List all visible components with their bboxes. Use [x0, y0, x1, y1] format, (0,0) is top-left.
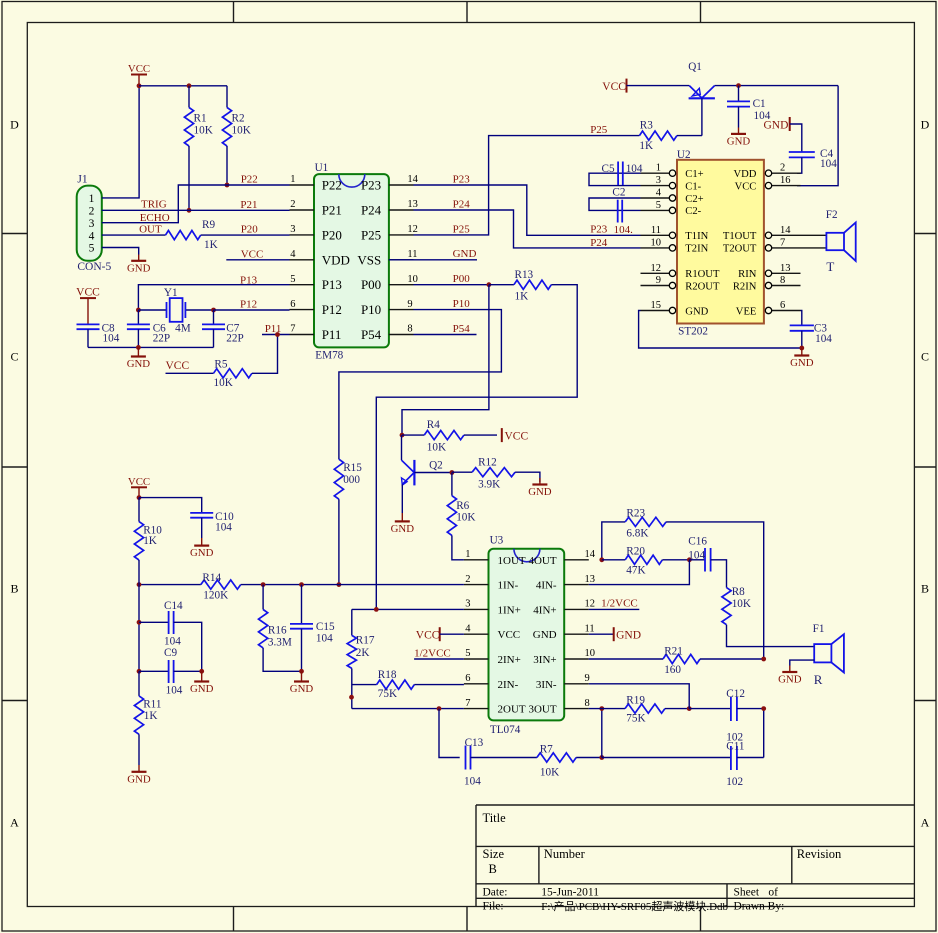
svg-text:VCC: VCC [505, 430, 529, 442]
svg-text:9: 9 [407, 299, 412, 310]
junction P00/R13 [487, 282, 492, 287]
ground C1 [727, 128, 751, 148]
svg-text:GND: GND [727, 135, 751, 147]
svg-text:6: 6 [780, 300, 785, 311]
svg-text:GND: GND [290, 683, 314, 695]
svg-text:GND: GND [685, 306, 708, 317]
svg-text:EM78: EM78 [315, 350, 343, 362]
svg-text:10K: 10K [214, 377, 233, 389]
svg-text:P25: P25 [361, 227, 381, 242]
svg-text:1: 1 [89, 193, 95, 205]
svg-text:22P: 22P [226, 333, 243, 345]
junction P11/R5 [275, 332, 280, 337]
ground R12 [528, 478, 552, 498]
svg-text:U3: U3 [490, 535, 504, 547]
svg-text:Y1: Y1 [164, 287, 178, 299]
resistor R17 2K [347, 609, 375, 708]
junction 1IN-/R10 [137, 582, 142, 587]
svg-text:104: 104 [316, 633, 333, 645]
power port GND (C4) [764, 117, 790, 131]
svg-text:R3: R3 [640, 120, 653, 132]
svg-text:R23: R23 [626, 507, 645, 519]
svg-text:CON-5: CON-5 [77, 261, 111, 273]
svg-text:120K: 120K [203, 589, 228, 601]
wire J1 pin5 to ground [102, 248, 139, 255]
svg-text:T2OUT: T2OUT [723, 244, 757, 255]
capacitor C15 104 [290, 585, 335, 672]
resistor R21 160 [589, 646, 764, 676]
svg-text:10K: 10K [732, 598, 751, 610]
svg-text:B: B [921, 582, 929, 596]
svg-text:75K: 75K [626, 713, 645, 725]
svg-text:C12: C12 [726, 688, 745, 700]
svg-text:GND: GND [528, 486, 552, 498]
wire P23 net to U2 T1IN [414, 173, 641, 236]
svg-text:P13: P13 [240, 274, 258, 286]
op-amp U2 ST202 transceiver [641, 149, 801, 337]
svg-text:R9: R9 [202, 219, 215, 231]
wire VCC to Q1 emitter [627, 85, 690, 87]
svg-text:8: 8 [585, 698, 590, 709]
svg-text:7: 7 [465, 698, 470, 709]
svg-text:C2: C2 [612, 187, 625, 199]
wire P25 net to R3 [414, 124, 640, 236]
resistor R12 3.9K [452, 456, 540, 490]
svg-text:7: 7 [780, 237, 785, 248]
svg-text:D: D [921, 118, 930, 132]
svg-text:13: 13 [780, 263, 791, 274]
svg-text:P54: P54 [361, 327, 382, 342]
svg-text:8: 8 [780, 275, 785, 286]
junction C3/GND [799, 346, 804, 351]
wire R8 to F1 [0, 0, 1, 1]
svg-text:B: B [10, 582, 18, 596]
svg-text:104: 104 [815, 333, 832, 345]
svg-text:4IN+: 4IN+ [533, 604, 556, 616]
resistor R16 3.3M [259, 585, 302, 672]
svg-text:Sheet: Sheet [734, 887, 760, 899]
svg-text:TL074: TL074 [490, 724, 521, 736]
svg-text:5: 5 [89, 243, 95, 255]
svg-text:104.: 104. [614, 224, 634, 236]
svg-text:ECHO: ECHO [140, 212, 170, 224]
svg-text:P22: P22 [322, 178, 342, 193]
svg-text:GND: GND [190, 683, 214, 695]
svg-text:VCC: VCC [128, 63, 150, 75]
svg-text:10: 10 [585, 648, 596, 659]
svg-text:12: 12 [651, 263, 662, 274]
resistor R18 75K [352, 669, 464, 700]
transistor Q2 [402, 435, 452, 513]
svg-text:14: 14 [585, 549, 596, 560]
svg-text:104: 104 [103, 333, 120, 345]
resistor R5 10K on P11 [166, 335, 278, 389]
svg-text:R6: R6 [456, 500, 469, 512]
svg-text:P00: P00 [453, 273, 471, 285]
svg-text:104: 104 [626, 163, 643, 175]
svg-text:of: of [768, 887, 778, 899]
svg-text:VEE: VEE [736, 306, 757, 317]
svg-text:GND: GND [127, 773, 151, 785]
svg-text:1K: 1K [204, 239, 218, 251]
ground Q2 emitter [391, 513, 415, 535]
svg-text:VCC: VCC [76, 287, 100, 299]
resistor R11 1K [134, 671, 161, 765]
svg-text:1K: 1K [639, 140, 653, 152]
svg-text:P21: P21 [240, 199, 257, 211]
svg-text:104: 104 [215, 522, 232, 534]
svg-text:R7: R7 [540, 743, 553, 755]
wire J1 pin1 to VCC [102, 86, 139, 198]
crystal Y1 4M [138, 287, 213, 334]
svg-text:C1: C1 [753, 98, 766, 110]
junction 4OUT/R20/R23 [599, 557, 604, 562]
svg-text:5: 5 [465, 648, 470, 659]
svg-text:1IN-: 1IN- [498, 580, 519, 592]
wire P00 net [414, 273, 489, 285]
svg-text:12: 12 [407, 224, 418, 235]
ground R11 [127, 765, 151, 785]
wire C8/C6/C7 ground bus [88, 346, 214, 348]
junction 3OUT/R19 [599, 706, 604, 711]
wire T2OUT to F2 [801, 247, 827, 249]
svg-text:GND: GND [127, 358, 151, 370]
svg-text:3IN+: 3IN+ [533, 654, 556, 666]
svg-text:F:\产品\PCB\HY-SRF05超声波模块.Ddb: F:\产品\PCB\HY-SRF05超声波模块.Ddb [541, 899, 728, 913]
svg-text:RIN: RIN [738, 269, 757, 280]
svg-text:R17: R17 [356, 635, 375, 647]
svg-text:VDD: VDD [322, 252, 350, 267]
wire Q1 collector to U2 VCC pin16 [797, 86, 838, 186]
svg-text:2K: 2K [356, 647, 370, 659]
svg-text:VCC: VCC [602, 81, 626, 93]
svg-text:15: 15 [651, 300, 662, 311]
junction VCC rail / J1 [137, 83, 142, 88]
resistor R10 1K [134, 498, 162, 585]
svg-text:1/2VCC: 1/2VCC [601, 598, 638, 610]
svg-text:P24: P24 [590, 237, 608, 249]
capacitor C13 104 [464, 737, 537, 787]
svg-text:R15: R15 [343, 462, 362, 474]
svg-text:J1: J1 [77, 173, 87, 185]
svg-text:File:: File: [483, 900, 504, 912]
svg-text:P23: P23 [361, 178, 381, 193]
svg-text:102: 102 [726, 731, 743, 743]
resistor R1 10K [184, 86, 212, 211]
svg-text:C: C [921, 350, 929, 364]
wire 1/2VCC on 4IN+ [589, 598, 640, 610]
resistor R8 10K [722, 586, 814, 647]
svg-text:3: 3 [89, 218, 95, 230]
svg-text:10K: 10K [456, 512, 475, 524]
svg-text:F1: F1 [813, 623, 825, 635]
wire P00 to Q2 collector [402, 285, 489, 435]
title block [476, 805, 914, 913]
svg-text:11: 11 [585, 623, 595, 634]
svg-text:1: 1 [465, 549, 470, 560]
svg-text:P10: P10 [453, 298, 471, 310]
wire U2 GND pin15 to ground [639, 311, 802, 349]
junction R16/C15/ground [299, 669, 304, 674]
svg-text:A: A [921, 816, 930, 830]
svg-text:R5: R5 [214, 359, 227, 371]
svg-text:R1: R1 [194, 113, 207, 125]
wire VSS GND stub [389, 248, 477, 260]
svg-text:R4: R4 [427, 419, 440, 431]
svg-text:P00: P00 [361, 277, 381, 292]
ground crystal bus [127, 347, 151, 370]
svg-text:12: 12 [585, 599, 596, 610]
svg-text:T1OUT: T1OUT [723, 231, 757, 242]
svg-text:Q2: Q2 [429, 459, 443, 471]
svg-text:2IN+: 2IN+ [498, 654, 521, 666]
wire 2OUT to C13 [439, 709, 460, 758]
svg-text:R18: R18 [378, 669, 397, 681]
svg-text:VCC: VCC [498, 629, 521, 641]
svg-text:GND: GND [533, 629, 557, 641]
svg-text:C13: C13 [465, 737, 484, 749]
wire 4IN- loop [589, 560, 690, 585]
svg-text:P23: P23 [453, 173, 471, 185]
svg-text:160: 160 [664, 664, 681, 676]
svg-text:R8: R8 [732, 586, 745, 598]
svg-text:104: 104 [164, 636, 181, 648]
svg-text:R13: R13 [515, 269, 534, 281]
svg-text:Number: Number [544, 847, 586, 861]
svg-text:R2: R2 [232, 113, 245, 125]
power port VCC (U3 pin4) [416, 627, 464, 641]
speaker F1 (R) [813, 623, 844, 687]
svg-text:4OUT: 4OUT [528, 555, 556, 567]
capacitor C6 22P [127, 310, 170, 347]
svg-text:GND: GND [190, 547, 214, 559]
wire VCC to C10 [139, 498, 202, 513]
svg-text:C1+: C1+ [685, 169, 703, 180]
svg-text:T: T [826, 259, 834, 274]
capacitor C9 104 [139, 647, 202, 697]
junction R17/2OUT branch [349, 695, 354, 700]
wire VCC to U1 VDD [226, 248, 289, 260]
junction R15/1IN- [337, 582, 342, 587]
svg-text:C1-: C1- [685, 181, 701, 192]
svg-text:R14: R14 [202, 572, 221, 584]
svg-text:6: 6 [465, 673, 470, 684]
wire P11 net [262, 323, 290, 335]
svg-text:Date:: Date: [483, 887, 508, 899]
svg-text:9: 9 [656, 275, 661, 286]
svg-text:104: 104 [464, 776, 481, 788]
svg-text:GND: GND [391, 523, 415, 535]
svg-text:Q1: Q1 [688, 61, 702, 73]
svg-text:R11: R11 [143, 699, 161, 711]
svg-text:VCC: VCC [166, 360, 190, 372]
svg-text:2: 2 [465, 574, 470, 585]
svg-text:102: 102 [726, 776, 743, 788]
svg-text:1K: 1K [144, 710, 158, 722]
svg-text:10K: 10K [540, 767, 559, 779]
junction R1/TRIG [187, 208, 192, 213]
junction 1IN-/C15 [299, 582, 304, 587]
svg-text:VCC: VCC [241, 248, 264, 260]
wire P13 net [138, 274, 289, 310]
svg-text:3IN-: 3IN- [536, 679, 557, 691]
ground C9/C14 [190, 671, 214, 695]
svg-text:P11: P11 [322, 327, 342, 342]
svg-text:14: 14 [407, 174, 418, 185]
power port VCC (R10) [128, 476, 150, 498]
svg-text:GND: GND [790, 357, 814, 369]
svg-text:P20: P20 [322, 227, 342, 242]
svg-text:3OUT: 3OUT [528, 704, 556, 716]
svg-text:47K: 47K [626, 565, 645, 577]
svg-text:A: A [10, 816, 19, 830]
svg-text:1K: 1K [515, 291, 529, 303]
svg-text:OUT: OUT [139, 223, 162, 235]
wire T1OUT to F2 [801, 234, 827, 236]
svg-text:R2IN: R2IN [733, 281, 757, 292]
wire 3IN- loop [589, 684, 689, 709]
capacitor C10 104 [190, 511, 234, 538]
wire R10 node down [138, 585, 140, 672]
svg-text:P10: P10 [361, 302, 381, 317]
wire 1IN+ net [352, 608, 464, 610]
wire ECHO net [102, 174, 290, 224]
resistor R6 10K [447, 473, 475, 560]
svg-text:3: 3 [290, 224, 295, 235]
capacitor C12 102 [689, 688, 764, 744]
svg-text:11: 11 [651, 225, 661, 236]
svg-text:1OUT: 1OUT [498, 555, 526, 567]
svg-text:C9: C9 [164, 647, 177, 659]
svg-text:C2+: C2+ [685, 194, 703, 205]
op-amp U3 TL074 [464, 535, 596, 736]
svg-text:2IN-: 2IN- [498, 679, 519, 691]
ground J1 pin5 [127, 255, 151, 275]
svg-text:U1: U1 [315, 162, 329, 174]
svg-text:VCC: VCC [128, 476, 150, 488]
svg-text:P25: P25 [590, 124, 608, 136]
capacitor C11 102 [602, 740, 764, 788]
svg-text:14: 14 [780, 225, 791, 236]
svg-text:P54: P54 [453, 323, 471, 335]
junction Q2 base/R6/R12 [450, 470, 455, 475]
svg-text:VCC: VCC [735, 181, 757, 192]
svg-text:R19: R19 [626, 694, 645, 706]
junction C12/vertical [761, 706, 766, 711]
resistor R19 75K [589, 694, 689, 724]
svg-text:2: 2 [780, 163, 785, 174]
svg-text:T2IN: T2IN [685, 244, 708, 255]
svg-text:Drawn By:: Drawn By: [734, 900, 785, 912]
svg-text:P25: P25 [453, 223, 471, 235]
svg-text:C16: C16 [688, 536, 707, 548]
svg-text:P22: P22 [241, 174, 258, 186]
svg-text:GND: GND [778, 674, 802, 686]
wire 1/2VCC to 2IN+ [414, 647, 464, 659]
svg-text:1K: 1K [143, 535, 157, 547]
capacitor C3 104 [790, 311, 833, 349]
wire chain to C11 [0, 0, 1, 1]
svg-text:10K: 10K [194, 125, 213, 137]
wire F1 to ground [790, 660, 814, 665]
resistor R15 000 [334, 459, 362, 584]
ground C10 [190, 538, 214, 559]
svg-text:Title: Title [483, 811, 507, 825]
junction Q1 collector/C1 [736, 83, 741, 88]
svg-text:75K: 75K [378, 688, 397, 700]
svg-text:VCC: VCC [416, 629, 440, 641]
svg-text:P13: P13 [322, 277, 342, 292]
speaker F2 (T) [826, 209, 856, 274]
svg-text:4: 4 [465, 623, 471, 634]
power port VCC (Q1 emitter) [602, 79, 626, 93]
svg-text:R20: R20 [626, 545, 645, 557]
svg-text:R1OUT: R1OUT [685, 269, 720, 280]
wire TRIG net [102, 199, 290, 211]
svg-text:TRIG: TRIG [141, 199, 167, 211]
junction VCC/R1 [187, 83, 192, 88]
wire R7 to 3OUT [601, 709, 603, 758]
svg-text:C5: C5 [602, 163, 615, 175]
svg-text:GND: GND [453, 248, 477, 260]
capacitor C7 22P [202, 310, 244, 347]
junction P13/Y1/C6 [136, 308, 141, 313]
connector J1 (CON-5) [77, 173, 112, 273]
svg-text:P12: P12 [322, 302, 342, 317]
svg-text:10: 10 [651, 237, 662, 248]
svg-text:P24: P24 [361, 203, 382, 218]
svg-text:5: 5 [290, 274, 295, 285]
power port GND (U3 pin11) [589, 627, 641, 641]
svg-text:4: 4 [290, 249, 296, 260]
svg-text:10K: 10K [427, 442, 446, 454]
svg-text:3: 3 [465, 599, 470, 610]
junction R21/vertical [761, 657, 766, 662]
junction 1IN-/R16 [261, 582, 266, 587]
svg-text:5: 5 [656, 200, 661, 211]
junction C9/C14/ground [199, 669, 204, 674]
svg-text:P12: P12 [240, 299, 257, 311]
wire P10 net to R15 [339, 298, 502, 459]
resistor R14 120K on 1IN- net [139, 572, 464, 602]
svg-text:15-Jun-2011: 15-Jun-2011 [541, 887, 599, 899]
svg-text:B: B [489, 862, 497, 876]
wire C11 up to C12 node [763, 709, 765, 758]
junction C14 tap [137, 620, 142, 625]
svg-text:22P: 22P [153, 333, 170, 345]
resistor R7 10K [537, 743, 602, 778]
svg-text:000: 000 [343, 474, 360, 486]
resistor R13 1K P00 to 1IN+ [376, 269, 577, 609]
svg-text:P20: P20 [241, 223, 259, 235]
capacitor C8 104 with VCC port [76, 287, 120, 348]
svg-text:GND: GND [127, 262, 151, 274]
capacitor C5 104 [589, 162, 643, 186]
svg-text:ST202: ST202 [678, 325, 708, 337]
svg-text:10K: 10K [232, 125, 251, 137]
svg-text:104: 104 [820, 158, 837, 170]
svg-text:C2-: C2- [685, 206, 701, 217]
capacitor C1 104 [727, 86, 771, 128]
resistor R9 1K on OUT net [102, 219, 290, 251]
junction 2OUT/C13 branch [437, 706, 442, 711]
svg-text:13: 13 [407, 199, 418, 210]
junction R7/3OUT branch [599, 755, 604, 760]
svg-text:13: 13 [585, 574, 596, 585]
svg-text:R: R [814, 672, 823, 687]
svg-text:R2OUT: R2OUT [685, 281, 720, 292]
ground F1 [778, 666, 802, 686]
